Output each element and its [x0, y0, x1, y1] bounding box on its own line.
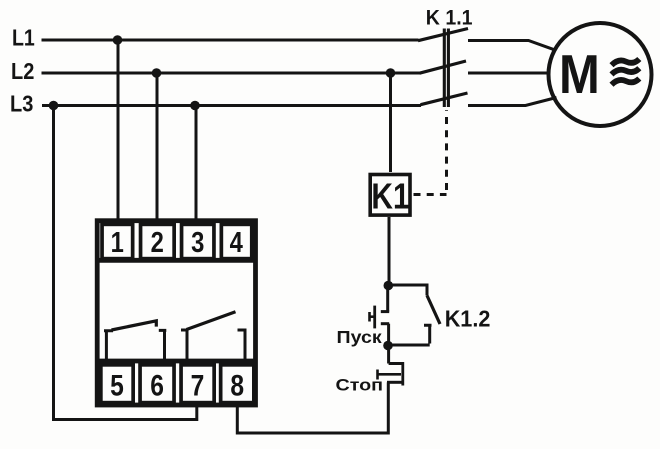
contact K1.2 lower terminal [389, 325, 432, 345]
wire K1.2 branch top [388, 285, 427, 296]
wire L2 to terminal 2 [156, 73, 159, 219]
svg-text:8: 8 [230, 368, 244, 402]
terminal 8 [221, 365, 254, 403]
terminal 2 [141, 224, 175, 258]
terminal 5 [101, 365, 133, 403]
internal contact right blade [187, 312, 236, 330]
wire L3 bus [42, 104, 421, 107]
wire L1 bus [42, 39, 419, 42]
terminal 4 [221, 224, 251, 258]
internal contact right fixed terminal [238, 330, 247, 364]
svg-text:L2: L2 [11, 58, 34, 85]
terminal 1 [102, 224, 133, 258]
node A junction [384, 281, 394, 291]
node B junction [383, 341, 393, 351]
button Пуск actuator head [368, 312, 371, 322]
internal contact left fixed terminal [159, 330, 167, 363]
svg-text:M: M [559, 44, 600, 105]
svg-text:K1.2: K1.2 [445, 306, 491, 332]
wire pole2 to motor [468, 72, 549, 75]
button Стоп actuator stem [378, 373, 402, 376]
node L2 tap [152, 68, 162, 78]
contactor K1.1 linkage bar [444, 29, 448, 108]
svg-text:Стоп: Стоп [336, 375, 384, 394]
motor wave symbol [612, 59, 640, 85]
button Пуск bridge [373, 306, 376, 329]
svg-text:3: 3 [191, 226, 204, 259]
terminal 6 [140, 365, 174, 403]
svg-text:1: 1 [111, 226, 124, 259]
svg-text:L1: L1 [12, 25, 35, 51]
coil K1 box [370, 175, 410, 216]
wire pole1 to motor [468, 41, 555, 50]
terminal 7 [181, 365, 214, 403]
wire terminal 7 down [195, 406, 198, 421]
wire L2 tap to coil K1 [389, 73, 392, 172]
wire L1 to terminal 1 [117, 40, 120, 219]
contactor K1.1 blade pole 2 [420, 61, 467, 73]
svg-text:Пуск: Пуск [337, 327, 383, 347]
button Пуск upper contact tick [381, 310, 389, 313]
relay module box [97, 221, 255, 405]
wire terminal 8 down to stop branch [237, 406, 388, 433]
svg-text:K1: K1 [371, 177, 409, 217]
wire node A to start button [386, 286, 389, 312]
svg-text:2: 2 [151, 226, 164, 259]
mechanical link dashed [414, 110, 447, 195]
motor M circle [549, 23, 652, 126]
terminal 3 [182, 224, 214, 258]
wire L3 branch left vertical [54, 106, 197, 420]
relay module bottom rail [97, 359, 255, 364]
wire coil K1 to node A [388, 217, 391, 286]
relay module top rail [97, 258, 255, 263]
contactor K1.1 blade pole 1 [418, 29, 468, 41]
svg-text:L3: L3 [10, 90, 33, 117]
wire stop button down [387, 382, 390, 434]
node L2 to coil tap [386, 68, 396, 78]
wire pole3 to motor [468, 98, 557, 106]
button Стоп bridge [401, 362, 404, 386]
svg-text:6: 6 [150, 368, 164, 402]
svg-text:7: 7 [191, 368, 205, 402]
node L3 tap [190, 101, 200, 111]
button Пуск actuator stem [369, 315, 375, 318]
node L1 tap [113, 35, 123, 45]
svg-text:4: 4 [230, 226, 243, 259]
button Стоп lower contact tick [387, 381, 402, 384]
button Стоп upper contact tick [389, 362, 402, 365]
wire L3 to terminal 3 [195, 106, 198, 220]
wire L2 bus [42, 72, 421, 75]
contactor K1.1 blade pole 3 [421, 93, 468, 105]
button Пуск lower contact tick [381, 322, 389, 325]
internal contact left pole [104, 331, 113, 364]
svg-text:K 1.1: K 1.1 [426, 6, 473, 30]
svg-text:5: 5 [110, 368, 124, 402]
internal contact right pole [181, 330, 189, 364]
wire node B to stop button [387, 346, 390, 364]
wire start button to node B [387, 324, 390, 346]
contact K1.2 blade [427, 296, 440, 325]
node L3 left tap [49, 101, 59, 111]
button Стоп actuator head [376, 370, 379, 380]
internal contact left blade [112, 321, 157, 330]
